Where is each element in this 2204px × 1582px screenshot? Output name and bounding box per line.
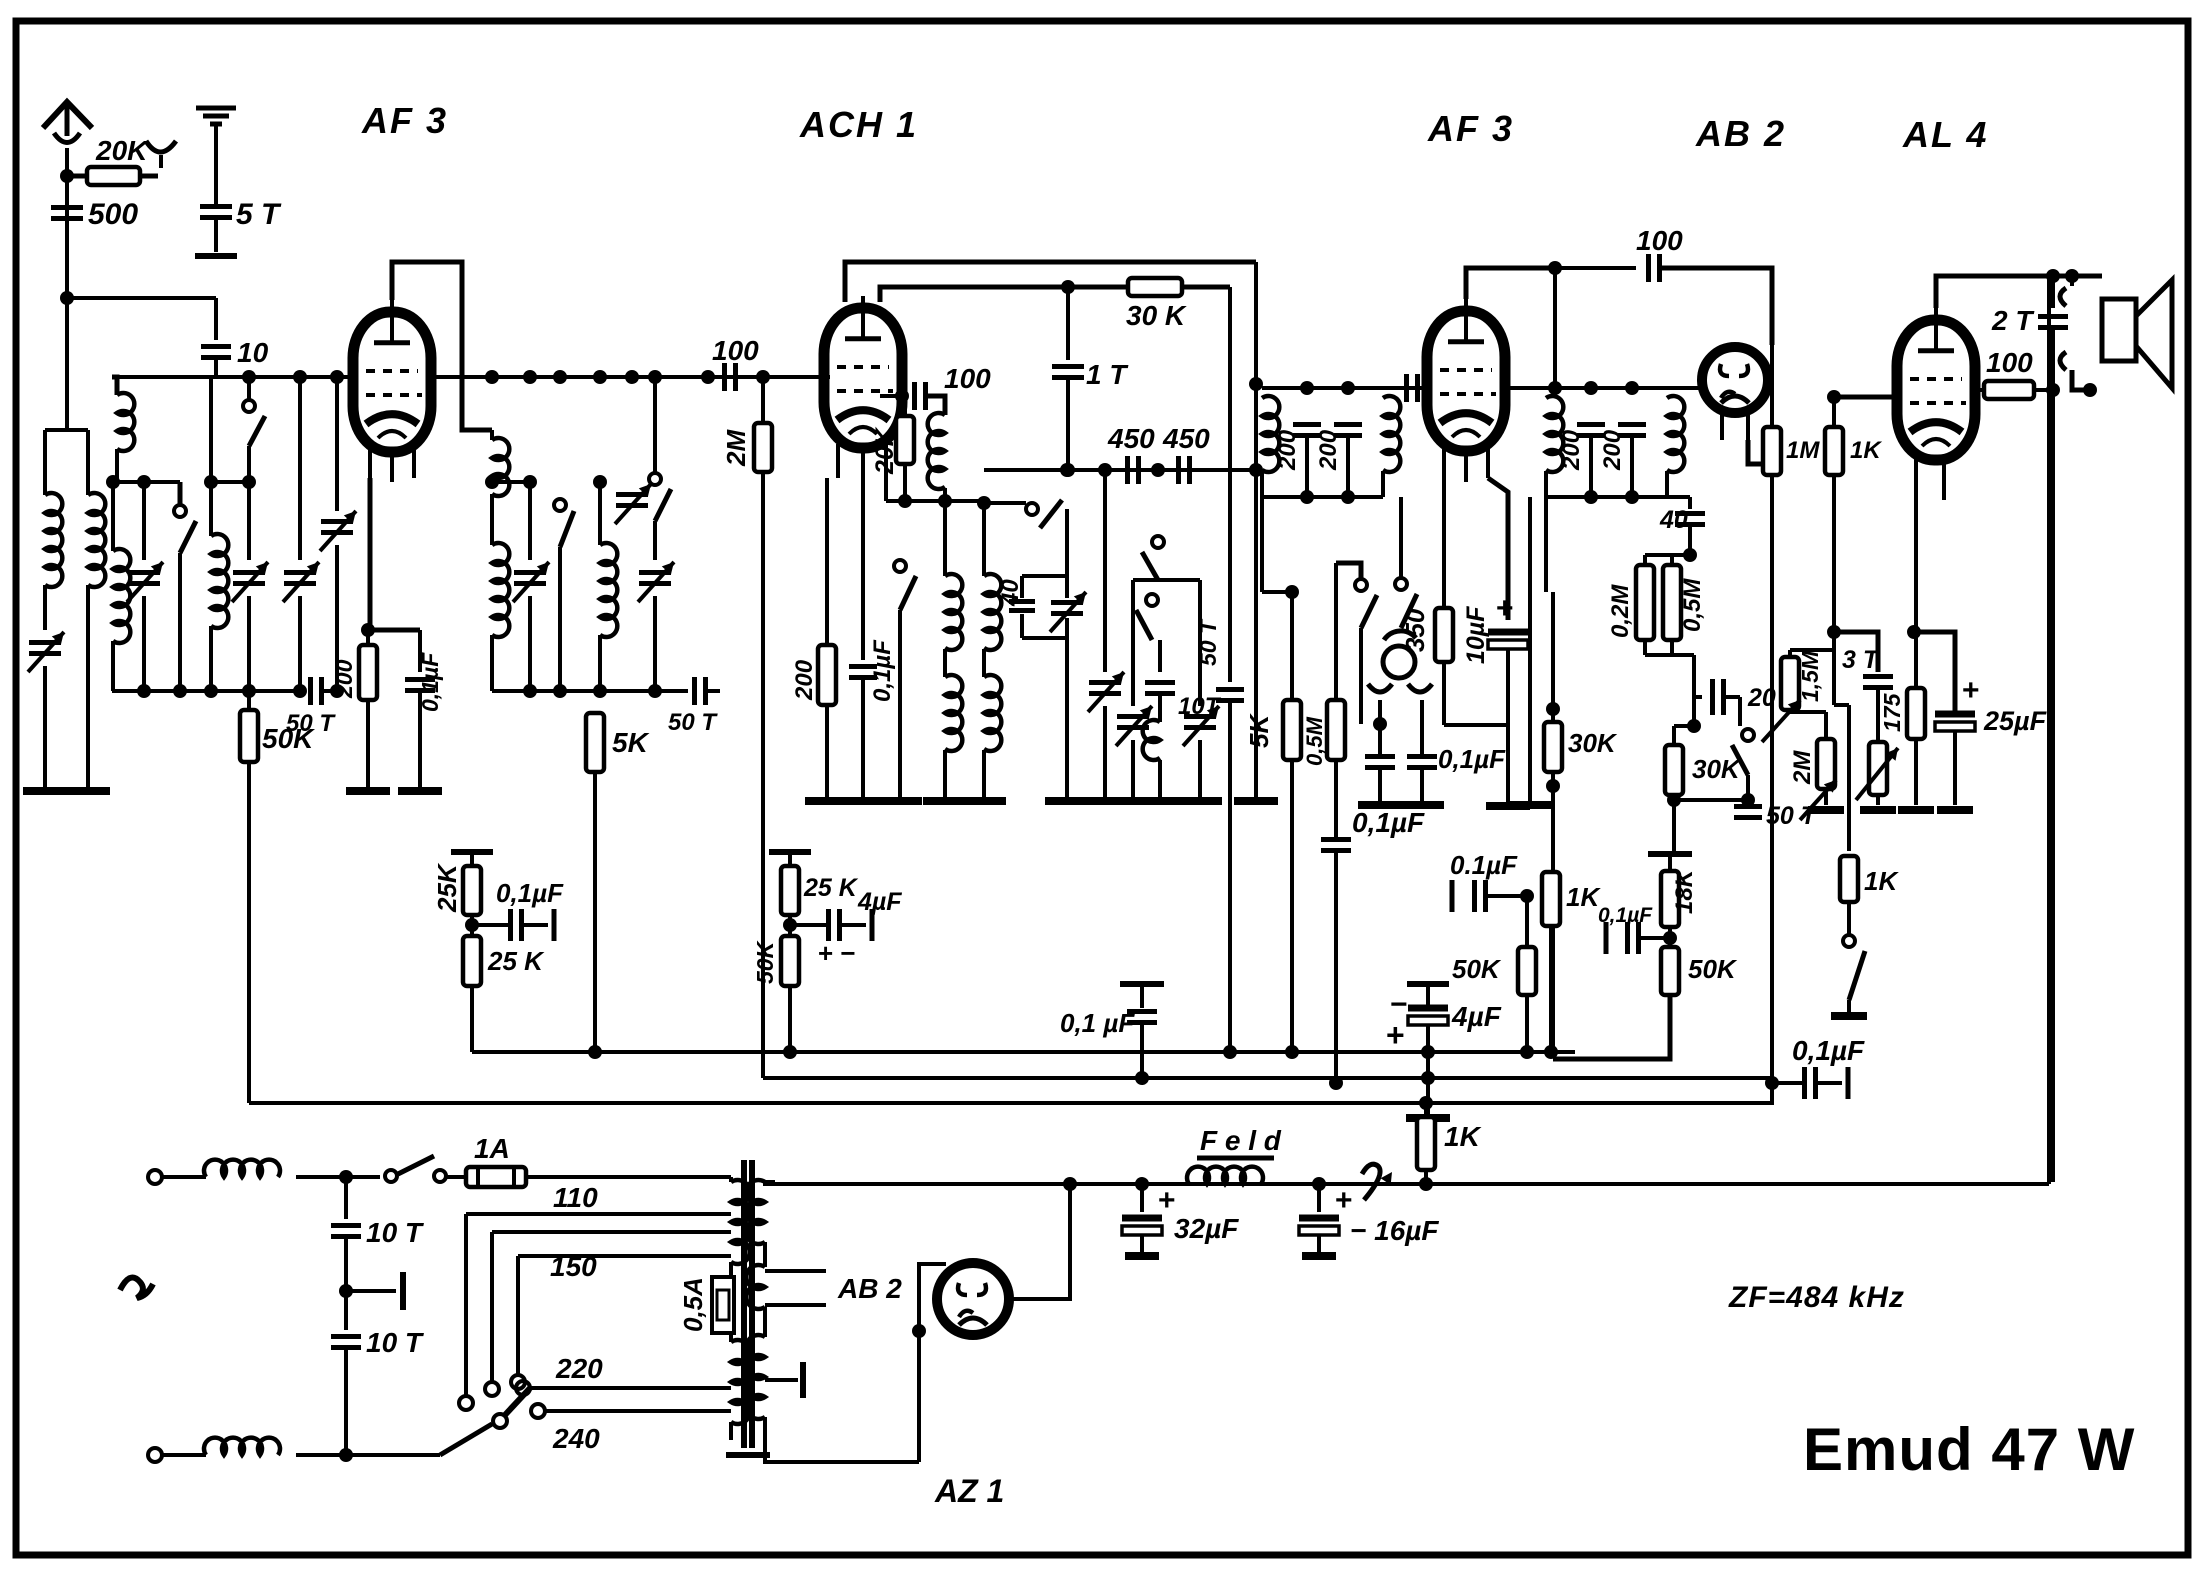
svg-text:200: 200 (791, 659, 818, 701)
label 25uF (1983, 706, 2048, 736)
ground 175 (1898, 806, 1934, 814)
variable capacitor C t3 (283, 562, 319, 691)
wire L1 down (43, 585, 47, 630)
label 500 (88, 198, 138, 231)
svg-text:AL 4: AL 4 (1902, 114, 1988, 155)
mains terminal N (148, 1448, 206, 1462)
potentiometer 1.5M (1762, 650, 1834, 742)
capacitor 10T a (331, 1177, 361, 1291)
variable capacitor padder b (1116, 580, 1152, 797)
coil L osc fb (928, 413, 945, 501)
label 1K c (1566, 882, 1601, 912)
svg-text:4µF: 4µF (1451, 1001, 1502, 1032)
center tap terminal (765, 1362, 803, 1398)
capacitor 5T (200, 207, 232, 218)
wire AL4 anode (1936, 269, 2102, 308)
label 50T (286, 710, 336, 737)
row AB2 top (1645, 548, 1697, 562)
svg-text:0,5A: 0,5A (678, 1277, 708, 1332)
svg-text:50K: 50K (1452, 954, 1502, 984)
ground S osc (878, 797, 922, 805)
junction det (1373, 700, 1387, 754)
capacitor 50T tone (1734, 807, 1762, 818)
label 4uF b (857, 888, 902, 916)
secondary HV lower winding (746, 1335, 765, 1440)
label 4uF (1451, 1001, 1502, 1032)
wire col 1530 (1508, 497, 1552, 805)
label 0.1uF avc (1352, 807, 1425, 838)
switch S1b (242, 377, 265, 560)
label 0.1uF ACH1 (869, 639, 896, 702)
row 450 caps (984, 463, 1256, 477)
svg-text:1,5M: 1,5M (1797, 650, 1823, 702)
label 20K (95, 135, 149, 166)
capacitor 450 b (1179, 456, 1190, 484)
label 450 a (1107, 423, 1155, 454)
label 32uF (1174, 1213, 1239, 1244)
svg-text:Emud 47 W: Emud 47 W (1803, 1416, 2135, 1483)
wire speaker return (2089, 373, 2091, 390)
ground loopA (1234, 797, 1278, 805)
wire column x211 (204, 377, 218, 536)
capacitor 100 fb (1649, 254, 1660, 282)
resistor 20K (67, 167, 158, 185)
tube AB2 (1702, 347, 1768, 413)
terminal bar 25K a (451, 852, 493, 866)
label 10uF (1462, 606, 1490, 664)
svg-text:10µF: 10µF (1462, 606, 1490, 664)
wire IF2 bottom row (1546, 490, 1667, 504)
label 2M vol (1789, 750, 1816, 785)
label AL4 (output) (1902, 114, 1988, 155)
capacitor 200 IF1 b (1334, 388, 1362, 497)
label 20T (1747, 684, 1801, 712)
wire osc anode (880, 389, 909, 403)
resistor 1K c (1542, 850, 1560, 1052)
sec bottom wire (765, 1440, 919, 1462)
tap 220 (516, 1381, 731, 1395)
potentiometer 2M vol (1790, 710, 1836, 820)
fuse 0.5A (712, 1277, 734, 1333)
tube ACH1 (mixer/osc) (824, 296, 902, 448)
label 5K IF (1244, 713, 1274, 748)
svg-text:AB 2: AB 2 (837, 1273, 902, 1304)
AF3 pin 3 (412, 447, 416, 478)
label 0.1uF 18K (1598, 904, 1653, 927)
svg-text:− 16µF: − 16µF (1350, 1215, 1439, 1246)
junction node antenna (60, 291, 74, 305)
capacitor 4uF (1407, 984, 1449, 1078)
AB2 pin 2 (1746, 410, 1750, 440)
tap 110 (459, 1214, 731, 1410)
resistor 30K AB2a (1544, 592, 1562, 1052)
wire AZ1 right (1009, 1177, 1077, 1299)
capacitor 0.1uF avc (1321, 840, 1351, 1083)
wire IF1 grid to AF3-2 (1383, 386, 1429, 390)
wire AF3 grid (0, 0, 1, 1)
wire AL4 grid col down (0, 0, 1, 1)
label 50T no.2 (668, 709, 718, 736)
label 5K (612, 727, 650, 758)
wire busA right (1553, 1057, 1670, 1061)
secondary AB2 heater winding (746, 1265, 765, 1337)
transformer primary winding (526, 1177, 750, 1440)
switch S1a (174, 482, 196, 691)
svg-text:150: 150 (550, 1251, 597, 1282)
svg-text:+: + (1386, 1017, 1405, 1053)
svg-text:5K: 5K (612, 727, 650, 758)
label 1K g (1850, 437, 1882, 464)
tap 150 (511, 1256, 731, 1389)
capacitor 100 osc (915, 382, 926, 410)
svg-text:100: 100 (1986, 347, 2033, 378)
svg-text:0,1 µF: 0,1 µF (1060, 1008, 1135, 1038)
svg-text:AB 2: AB 2 (1695, 113, 1786, 154)
resistor 30K no2 (1665, 726, 1694, 854)
label 30K AB2a (1568, 728, 1618, 758)
label 30K (1126, 300, 1187, 331)
row AB2 bottom (1645, 555, 1694, 697)
row 30K2 bottom (1674, 798, 1748, 802)
capacitor 10T b (331, 1291, 361, 1455)
label 100 fb (1636, 225, 1683, 256)
resistor 175 (1907, 475, 1925, 805)
label 3T (1842, 646, 1881, 674)
resistor 350 (1435, 478, 1453, 725)
label AB2 (detector) (1695, 113, 1786, 154)
label 40 osc (997, 579, 1024, 607)
resistor 0.5M AB2 (1663, 555, 1681, 640)
capacitor 25uF (1914, 632, 1975, 805)
coil IF1 primary (1262, 388, 1279, 497)
svg-text:50 T: 50 T (668, 709, 718, 736)
label 450 b (1162, 423, 1210, 454)
label 50K c (1452, 954, 1502, 984)
svg-text:175: 175 (1879, 692, 1905, 732)
label 200 IF2 b (1599, 429, 1626, 471)
choke mains a (204, 1160, 280, 1177)
label 0.2M (1607, 584, 1634, 638)
resistor 50K c (1518, 947, 1536, 1052)
ground det a (1358, 801, 1402, 809)
label plusminus b (818, 938, 856, 968)
resistor 1K h (1840, 856, 1858, 935)
wire after 100 (0, 0, 1, 1)
capacitor 50T osc (1216, 287, 1244, 1052)
label 10T (1178, 693, 1222, 720)
label 350 (1400, 608, 1430, 652)
capacitor 0.1uF 18K (1606, 922, 1670, 954)
svg-text:AF 3: AF 3 (1427, 108, 1514, 149)
svg-text:40: 40 (997, 579, 1024, 607)
wire rail corner (2047, 276, 2051, 1184)
wire IF1 down a (1260, 497, 1264, 592)
capacitor 0.1uF det b (1407, 700, 1437, 801)
wire 50K b down (1553, 995, 1670, 1059)
svg-text:500: 500 (88, 198, 138, 231)
capacitor 32uF (1122, 1184, 1162, 1256)
terminal bar 25K b (769, 852, 811, 866)
label 220 (555, 1353, 603, 1384)
coil IF1 secondary (1383, 388, 1400, 497)
svg-text:1K: 1K (1864, 866, 1899, 896)
svg-text:450: 450 (1107, 423, 1155, 454)
padding cap 40 loop (1009, 509, 1086, 797)
svg-text:+: + (1962, 674, 1980, 707)
wire fb row (1555, 266, 1636, 270)
label plus 4uF (1386, 1017, 1405, 1053)
wire AB2 down (1765, 268, 1779, 1105)
junction 18K (1663, 927, 1677, 947)
ground ACH1 cathode (805, 797, 849, 805)
label 200 IF1 b (1315, 429, 1342, 471)
wire ACH1 top loops (845, 262, 1256, 302)
label 1K rail (1444, 1121, 1482, 1152)
ground L2 (66, 787, 110, 795)
coil IF2 primary (1546, 388, 1563, 497)
switch S pad1 (1142, 478, 1164, 580)
label 0.1uF cathode (417, 652, 443, 712)
label 50K d (752, 940, 778, 984)
ground osc tank (962, 797, 1006, 805)
variable capacitor padder a (1088, 672, 1124, 797)
ground L1 (23, 787, 67, 795)
wire IF2 top to fb (1548, 261, 1562, 395)
label 30K no2 (1692, 754, 1742, 784)
label 0.1uF c (1450, 850, 1518, 880)
ground cathode cap (398, 787, 442, 795)
wire IF1 bottom row (1262, 490, 1383, 504)
wire 2M to bus B (761, 472, 765, 1078)
svg-text:2M: 2M (721, 429, 751, 467)
wire mains b (296, 1424, 492, 1462)
wire AF3 anode loop (392, 262, 492, 430)
tube AF3 no.2 (1427, 299, 1505, 451)
bus B (763, 1071, 1772, 1090)
variable capacitor C t1 (127, 482, 163, 691)
svg-text:+ −: + − (818, 938, 856, 968)
svg-text:0,1µF: 0,1µF (1438, 744, 1506, 774)
svg-text:2 T: 2 T (1991, 305, 2035, 336)
wire loopA down (1249, 262, 1263, 797)
speaker (2060, 276, 2172, 397)
resistor 5K IF (1283, 592, 1301, 1052)
label 18K (1671, 868, 1698, 914)
resistor 50K (240, 691, 258, 762)
svg-text:30 K: 30 K (1126, 300, 1187, 331)
resistor 20K osc (896, 396, 914, 501)
wire 30K2 down (0, 0, 1, 1)
tube AZ1 (937, 1263, 1009, 1335)
capacitor 1T (1052, 287, 1084, 477)
svg-text:18K: 18K (1671, 868, 1698, 914)
mains terminal L (148, 1170, 206, 1184)
svg-text:200: 200 (1599, 429, 1626, 471)
svg-text:1K: 1K (1566, 882, 1601, 912)
svg-text:0,1µF: 0,1µF (496, 878, 564, 908)
svg-text:10 T: 10 T (366, 1217, 425, 1248)
ACH1 pin b (861, 452, 865, 482)
row AL4 grid bias (1834, 705, 1849, 851)
capacitor 100 series (712, 335, 759, 391)
wire coil stems (45, 430, 88, 495)
svg-text:32µF: 32µF (1174, 1213, 1239, 1244)
choke mains b (204, 1438, 280, 1455)
capacitor 0.1uF ACH1 (849, 482, 877, 797)
junction row y691 (112, 684, 307, 698)
wire column x300 (298, 377, 302, 560)
coil L8 (593, 475, 617, 691)
coil L2 secondary (88, 493, 105, 587)
wire fb to AB2 (1660, 268, 1772, 345)
resistor 50K b (1661, 947, 1679, 995)
svg-text:350: 350 (1400, 608, 1430, 652)
label 2M (721, 429, 751, 467)
ground osc B (923, 797, 967, 805)
svg-text:110: 110 (553, 1182, 598, 1213)
label 50T tone (1766, 802, 1819, 830)
resistor 25K b1 (781, 866, 799, 915)
svg-text:1M: 1M (1786, 437, 1820, 464)
capacitor 2T (2038, 276, 2068, 390)
coil L1 primary (45, 493, 62, 587)
svg-text:0,1µF: 0,1µF (1792, 1035, 1865, 1066)
svg-text:50K: 50K (1688, 954, 1738, 984)
svg-text:+: + (1158, 1184, 1176, 1217)
junction row2 y691 (492, 684, 688, 698)
ground ACH1 cap (841, 797, 885, 805)
variable capacitor C t5 (513, 482, 549, 691)
svg-text:F e l d: F e l d (1200, 1125, 1282, 1156)
label 25K a2 (487, 946, 545, 976)
capacitor 16uF (1299, 1184, 1339, 1256)
label 50K b (1688, 954, 1738, 984)
wire col 1555 down (1545, 591, 1547, 593)
svg-text:0,1µF: 0,1µF (1598, 904, 1653, 927)
label 100 out (1986, 347, 2033, 378)
svg-text:200: 200 (331, 659, 357, 699)
svg-text:1K: 1K (1444, 1121, 1482, 1152)
row 350-10uF (1444, 723, 1508, 727)
ground x337 (0, 0, 1, 1)
wire L1 to ground (43, 666, 47, 791)
coil L6 top (492, 430, 509, 545)
svg-text:0,1µF: 0,1µF (1352, 807, 1425, 838)
wire 50K to bus (247, 762, 251, 1103)
label 40 AB2 (1659, 506, 1688, 534)
row pad y580 (1133, 578, 1200, 582)
switch S2a (554, 499, 574, 691)
resistor 200 cathode (359, 623, 377, 787)
switch S pad2 (1136, 594, 1158, 672)
ground S out (1831, 1012, 1867, 1020)
wire AB2 left pin (1667, 386, 1702, 390)
junction row y482 mid (211, 480, 249, 484)
heater wire a (765, 1269, 826, 1273)
wire grid row AF3 (112, 370, 356, 384)
junction 450 (1151, 463, 1165, 478)
label 20K osc (871, 426, 899, 475)
coil IF2 secondary (1667, 388, 1684, 497)
svg-text:AF 3: AF 3 (361, 100, 448, 141)
label 16uF (1350, 1215, 1439, 1246)
AF3-2 pin 3 (1486, 446, 1490, 478)
junction 25K a (465, 915, 479, 936)
label AZ1 (934, 1473, 1004, 1509)
svg-text:1A: 1A (474, 1133, 510, 1164)
wire L2 to ground (86, 585, 90, 791)
label 2T (1991, 305, 2035, 336)
switch S mains (380, 1156, 466, 1182)
wire ACH1 anode loop B (880, 287, 1128, 302)
variable tap arrow (1362, 1164, 1392, 1200)
label 0.1uF det a (0, 0, 1, 1)
wire out rail (2051, 390, 2055, 1182)
svg-text:50K: 50K (262, 723, 315, 754)
svg-text:0,5M: 0,5M (1679, 578, 1706, 632)
wire grid row ACH1 (0, 0, 1, 1)
wire IF1 top row (1262, 381, 1383, 395)
wire column x337 (335, 377, 339, 511)
antenna transformer link (0, 0, 1, 1)
wire AB2 plate right (1768, 378, 1772, 382)
resistor 25K a1 (463, 866, 481, 915)
label 10T a (366, 1217, 425, 1248)
bus A (+HT distribution) (472, 1045, 1575, 1059)
capacitor 10 (201, 298, 231, 377)
fuse 1A (466, 1167, 717, 1187)
label 25K a1 (432, 862, 462, 913)
svg-text:+: + (1496, 592, 1514, 625)
AF3 pin 2 (390, 452, 394, 482)
label Feld (1200, 1125, 1282, 1156)
junction row 2 y482 (485, 475, 537, 489)
wire ACH1 grid (824, 375, 830, 379)
variable capacitor C t2 (232, 562, 268, 691)
wire AF3-2 anode up (1466, 268, 1555, 299)
wire IF1 avc (0, 0, 1, 1)
svg-text:10: 10 (237, 337, 269, 368)
label 1T (1086, 359, 1129, 390)
ground pad coil (1138, 797, 1182, 805)
wire padder column (1103, 470, 1107, 672)
antenna symbol (43, 102, 92, 176)
label AF3 (IF amp) (1427, 108, 1514, 149)
ground 2M (1808, 806, 1844, 814)
svg-text:10 T: 10 T (366, 1327, 425, 1358)
ground 10uF (1486, 802, 1530, 810)
svg-text:20K: 20K (871, 426, 899, 475)
coil L7 (492, 543, 509, 691)
transformer core (726, 1160, 770, 1455)
capacitor series IF1 (1407, 374, 1418, 402)
capacitor 4uF b (790, 909, 872, 941)
resistor 50K d (781, 936, 799, 986)
resistor 1M (1763, 427, 1781, 475)
label 200 cathode (331, 659, 357, 699)
tap mid (485, 1232, 731, 1396)
label 200 IF2 a (1558, 429, 1585, 471)
resistor 25K a2 (463, 936, 481, 986)
resistor 1K rail (1417, 1103, 1435, 1184)
label plus 16uF (1335, 1184, 1353, 1217)
selector lever (493, 1387, 531, 1428)
wire mains a (296, 1170, 380, 1184)
svg-text:3 T: 3 T (1842, 646, 1881, 674)
svg-text:50 T: 50 T (1195, 618, 1221, 666)
label 0.5M AB2 (1679, 578, 1706, 632)
capacitor 50T series (311, 677, 345, 705)
